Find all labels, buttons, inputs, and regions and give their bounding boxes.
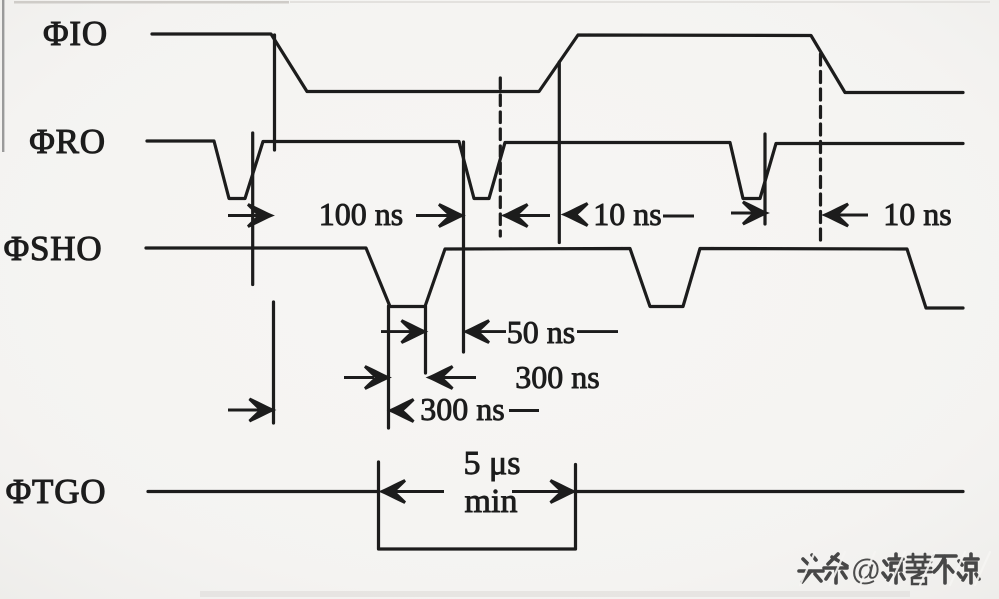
- svg-text:ΦTGO: ΦTGO: [6, 472, 107, 511]
- arrow A13 5us left: [394, 490, 444, 493]
- reference line V1 at ΦIO first fall: [273, 35, 276, 150]
- watermark char 头: [799, 555, 823, 582]
- dashed reference line D1: [499, 78, 502, 236]
- arrow A2 100ns right: [416, 214, 449, 217]
- reference line V7 at ΦIO rise: [558, 62, 561, 243]
- svg-text:5 μs: 5 μs: [464, 445, 521, 482]
- reference line V5 at ΦSHO rise: [424, 306, 427, 373]
- watermark 头条 @凉薯不凉: [799, 552, 990, 587]
- watermark white hatch overlay: [800, 552, 990, 585]
- svg-text:ΦRO: ΦRO: [29, 122, 106, 161]
- svg-text:10 ns: 10 ns: [593, 196, 661, 232]
- svg-text:100 ns: 100 ns: [319, 196, 403, 232]
- signal ΦIO waveform: [152, 34, 963, 93]
- arrow A12 300ns lower at V4: [391, 400, 414, 422]
- signal ΦSHO waveform: [146, 248, 963, 308]
- signal ΦTGO waveform left segment: [148, 490, 379, 493]
- reference line V6 at ΦRO second pulse: [462, 142, 465, 352]
- reference line V8 at ΦRO third pulse: [763, 134, 766, 224]
- watermark char 凉 second: [958, 554, 979, 583]
- dimension texts: [319, 196, 952, 520]
- arrow A3 at dashed line D1: [516, 214, 550, 217]
- arrow A4 10ns first: [565, 204, 588, 226]
- arrow A11 300ns lower left: [228, 409, 259, 412]
- reference line V4 at ΦSHO fall: [387, 306, 390, 428]
- arrow A7 50ns left: [381, 330, 411, 333]
- reference line V3 lower left 300ns: [272, 302, 275, 423]
- svg-text:ΦIO: ΦIO: [43, 14, 108, 53]
- arrow A8 50ns right: [478, 330, 506, 333]
- svg-text:50 ns: 50 ns: [507, 314, 575, 350]
- signal ΦRO waveform: [147, 141, 963, 199]
- arrow A9 300ns upper left: [344, 376, 374, 379]
- watermark char 条: [824, 554, 847, 583]
- watermark char 薯: [907, 554, 931, 578]
- dash after 50 ns text: [577, 330, 618, 333]
- dashed reference line D2: [819, 54, 822, 243]
- signal ΦTGO waveform right segment: [576, 490, 964, 493]
- dash after 300 ns lower text: [509, 409, 539, 412]
- signal labels: [4, 14, 108, 511]
- svg-text:300 ns: 300 ns: [515, 359, 599, 395]
- 5us min bracket under ΦTGO: [379, 462, 576, 549]
- arrow A10 300ns upper right: [442, 376, 476, 379]
- faint bottom strip: [200, 591, 910, 597]
- dash after 10 ns first text: [663, 215, 694, 218]
- svg-text:10 ns: 10 ns: [883, 196, 951, 232]
- svg-text:ΦSHO: ΦSHO: [4, 229, 103, 268]
- watermark char 凉: [883, 554, 904, 583]
- reference tick V2 at ΦRO first pulse end: [251, 133, 254, 285]
- arrow A1 100ns left: [228, 214, 258, 217]
- svg-text:min: min: [465, 483, 518, 520]
- arrows: [228, 202, 868, 503]
- arrow A5 at ΦRO third pulse: [731, 212, 753, 215]
- arrow A14 5us right: [512, 490, 561, 493]
- arrow A6 10ns second: [836, 214, 868, 217]
- watermark char 不: [934, 556, 956, 583]
- svg-text:300 ns: 300 ns: [420, 391, 504, 427]
